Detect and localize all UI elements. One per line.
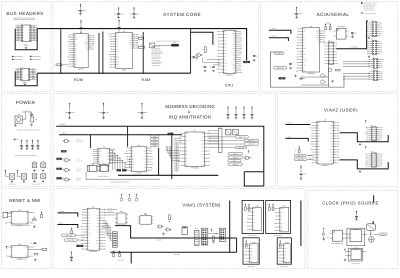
svg-text:BE: BE [185,151,187,153]
reset header J10 [3,212,11,217]
wire ACIA aux 2 [301,84,329,86]
wire bus vertical right of RAM [142,32,144,73]
frame B1 parts [245,240,247,247]
svg-text:pin the may in: pin the may in [152,55,161,57]
power flag BUS GND (J1) [12,58,24,61]
caption SPI header [118,260,125,262]
svg-text:NMI DEBOUNCE: NMI DEBOUNCE [17,259,28,261]
svg-text:CB1: CB1 [365,166,368,168]
svg-text:PB0: PB0 [233,63,236,65]
svg-text:U24A: U24A [355,229,359,231]
divider U24 74HC74 [345,228,367,249]
svg-text:A4: A4 [88,240,90,242]
svg-text:D1: D1 [379,24,381,26]
svg-text:PB0: PB0 [367,51,370,53]
svg-text:CA2: CA2 [201,165,204,167]
svg-text:RN1: RN1 [174,42,177,44]
gate U19B buffer [165,228,172,231]
svg-text:IO_CS: IO_CS [77,159,81,161]
ground barrel jack [14,124,17,127]
svg-text:BE: BE [74,48,76,50]
expansion frame A1 [242,200,263,233]
ground below J2 [24,83,27,86]
svg-text:D0: D0 [335,54,337,56]
svg-text:A11: A11 [303,37,306,39]
svg-text:A9: A9 [317,162,319,164]
svg-text:A0: A0 [132,167,134,169]
svg-text:D1: D1 [379,35,381,37]
net label pill stack B [150,138,159,141]
frame A1 caption [248,235,257,237]
svg-text:A9: A9 [224,34,226,36]
svg-text:D0: D0 [369,71,371,73]
svg-text:CB1: CB1 [367,35,370,37]
PS2 header J13 [219,228,225,241]
svg-text:PA7: PA7 [32,78,35,80]
VCC pullup pair above ACIA [325,22,331,29]
svg-text:A5: A5 [88,226,90,228]
svg-text:C4: C4 [190,57,192,59]
svg-text:OE: OE [97,226,99,228]
svg-text:CB1: CB1 [335,63,338,65]
svg-text:PB1: PB1 [116,51,119,53]
bus header J2 [15,66,36,81]
svg-text:A3: A3 [317,138,319,140]
svg-text:WE: WE [116,46,118,48]
decoupling cap C26 [251,106,254,119]
svg-text:PB0: PB0 [365,162,368,164]
svg-text:A12: A12 [317,152,320,154]
svg-text:OE: OE [116,67,118,69]
svg-text:MLB: MLB [185,133,188,135]
svg-text:CB1: CB1 [380,153,383,155]
svg-text:A3: A3 [116,41,118,43]
svg-text:UPGRADE B: UPGRADE B [280,266,288,268]
svg-text:TP2: TP2 [42,161,45,163]
svg-text:BE: BE [98,161,100,163]
svg-text:A8: A8 [12,212,14,214]
svg-text:D0: D0 [369,77,371,79]
gate IC U17 74HC14 glue [99,163,111,172]
svg-text:PA3: PA3 [324,57,327,59]
svg-text:SO: SO [185,165,187,167]
svg-text:RES: RES [380,67,383,69]
gate U10C nand [63,168,83,172]
svg-text:RS0..3: RS0..3 [287,136,291,138]
ground J4 [368,36,371,39]
svg-text:PB0: PB0 [303,48,306,50]
decoupling cap C1 [77,4,86,16]
decoupling cap C4 on bus vertical [190,56,198,59]
resistor R4 RDY pullup [202,47,206,53]
svg-text:PHI2: PHI2 [316,31,319,33]
svg-text:PA2: PA2 [88,215,91,217]
svg-text:ADDRESS DECODING: ADDRESS DECODING [165,104,215,109]
svg-text:CB1: CB1 [367,33,370,35]
svg-text:A0: A0 [317,127,319,129]
svg-text:D0: D0 [380,75,382,77]
svg-text:AUX PORT: AUX PORT [118,260,125,262]
wire bus vertical dark U9 [158,148,160,175]
svg-text:OE: OE [107,159,109,161]
caption 74HC parts [98,176,108,178]
svg-text:PA3: PA3 [367,41,370,43]
svg-text:A2: A2 [253,219,255,221]
gate U10A nand [63,139,83,143]
net label dark box AD [61,150,67,153]
svg-text:D6: D6 [303,56,305,58]
svg-text:not use ROM that: not use ROM that [152,62,163,64]
svg-text:A0..A15: A0..A15 [60,124,65,126]
svg-text:PA0: PA0 [284,251,287,253]
junction clock out [370,234,371,235]
wire thick VIA1 portB rail [110,252,236,256]
svg-text:VCC: VCC [324,54,327,56]
svg-text:RES: RES [379,31,382,33]
svg-text:PB0: PB0 [280,227,283,229]
wire thick VIA1 portA rail [115,226,237,242]
svg-text:A15: A15 [63,151,66,153]
user port header J9 [365,146,383,168]
svg-text:D1: D1 [335,43,337,45]
svg-text:Q2: Q2 [325,82,327,84]
wire bus drop to U8 [89,135,91,148]
ground SW2 [34,259,37,262]
wire power input [22,112,31,120]
speaker/buzzer LS1 [182,225,191,234]
svg-text:PB0: PB0 [380,135,383,137]
svg-text:A6: A6 [88,249,90,251]
decoupling cap C20 [65,103,75,119]
barrel jack J3 [15,113,22,123]
svg-text:RN2: RN2 [219,126,222,128]
svg-text:74HC74 (2): 74HC74 (2) [352,263,360,265]
svg-text:WE: WE [331,157,333,159]
svg-text:A1: A1 [366,129,368,131]
gate U19A buffer [157,225,164,228]
junction dots on top rail [60,28,191,29]
net label RTS/CTS pill [274,52,284,55]
decoupling cap C28 below VIA1 [70,251,73,261]
svg-text:OE: OE [88,246,90,248]
transistor Q1 level shift [321,74,327,78]
svg-text:PA1: PA1 [25,247,28,249]
svg-text:GND: GND [367,27,370,29]
PLD U7 ATF16V8 address decoder [178,129,211,169]
svg-text:D7: D7 [325,60,327,62]
svg-text:PA0: PA0 [280,230,283,232]
svg-text:WR_EN: WR_EN [77,170,82,172]
svg-text:1.8432MHz: 1.8432MHz [337,26,345,28]
svg-text:OSC. MODULE X1: OSC. MODULE X1 [331,243,343,245]
svg-text:PHI2: PHI2 [224,62,227,64]
RTC U19 DS3234 [138,213,154,224]
power flag BUS VCC (J1) [12,55,24,58]
svg-text:CA1: CA1 [116,36,119,38]
svg-text:IRQ: IRQ [280,212,282,214]
svg-text:IRQ: IRQ [330,141,332,143]
svg-text:A10: A10 [116,38,119,40]
note text block (ROM usage) [152,46,163,67]
net label pill stack D [150,144,159,147]
cap C9 ACIA area [289,63,292,69]
caption bulk caps [31,184,41,186]
svg-text:SYNC: SYNC [231,52,235,54]
svg-text:RDY: RDY [74,57,77,59]
svg-text:CS: CS [88,237,90,239]
svg-text:PA1: PA1 [303,40,306,42]
net label pill VIA1_CS [209,146,247,149]
resistor R2 ROM /WE pullup [54,64,68,67]
svg-text:BUS HEADERS: BUS HEADERS [6,11,43,16]
svg-text:D5: D5 [74,66,76,68]
svg-text:RESET & NMI: RESET & NMI [9,198,40,203]
serial header J7 [368,68,383,81]
svg-text:D4: D4 [303,62,305,64]
wire control bus to CPU left [191,32,213,44]
VCC chain clock left [323,228,329,241]
svg-text:RDY: RDY [74,50,77,52]
svg-text:and may this for ROM: and may this for ROM [363,3,377,5]
label J1 value [24,44,28,47]
svg-text:PB3: PB3 [317,33,320,35]
svg-text:D1: D1 [33,39,35,41]
caption U15 [17,259,28,261]
svg-text:OPTION SKT 2: OPTION SKT 2 [274,235,283,237]
svg-text:PA2: PA2 [224,37,227,39]
VIA#1 U6 W65C22S [81,205,108,253]
svg-text:D4: D4 [303,68,305,70]
comparator U8 74HC688 [92,145,115,164]
divider U24B 74HC74 [345,249,366,265]
svg-text:D0..D7: D0..D7 [287,122,292,124]
svg-text:A2: A2 [224,47,226,49]
frame A2 parts [268,204,274,211]
svg-text:VPB: VPB [96,243,99,245]
wire thick frame right rail [300,200,302,246]
svg-text:A1: A1 [366,160,368,162]
svg-text:A10: A10 [98,155,101,157]
svg-text:D6: D6 [185,161,187,163]
svg-text:WE: WE [202,136,204,138]
user port header J8 [365,120,383,142]
decoupling cap C2 [115,7,124,19]
serial header J5 [367,38,383,55]
svg-text:CS: CS [224,66,226,68]
wire thick portB drop [130,252,132,263]
CPU U1 W65C02S [217,27,243,76]
svg-text:PA3: PA3 [324,51,327,53]
svg-text:A3: A3 [88,234,90,236]
svg-text:VPB: VPB [201,133,204,135]
svg-text:A11: A11 [88,243,91,245]
net label TX dark box [279,77,286,80]
svg-text:IRQ: IRQ [98,149,100,151]
decoupling cap C30 VIA2 [300,165,307,179]
svg-text:GND: GND [250,258,253,260]
svg-text:D5: D5 [303,45,305,47]
section border RESET & NMI [1,189,51,269]
svg-text:VIA#2 (USER): VIA#2 (USER) [324,107,358,112]
svg-text:OE: OE [233,61,235,63]
decoupling cap C22 [137,103,147,119]
svg-text:A6: A6 [253,215,255,217]
wire main data/address bus top rail [37,29,246,61]
svg-text:TP1: TP1 [33,161,36,163]
svg-text:and of RAM this: and of RAM this [152,50,162,52]
svg-text:PA0: PA0 [130,40,133,42]
svg-text:PA3: PA3 [379,22,382,24]
svg-text:A3: A3 [74,52,76,54]
frame B2 parts [279,240,281,247]
wires VIA1 status [104,208,117,215]
gate U11B irq combine [244,150,252,159]
svg-text:D5: D5 [116,44,118,46]
svg-text:use use use that pin: use use use that pin [363,9,375,11]
cap C10 osc [351,32,357,38]
svg-text:CA2: CA2 [317,130,320,132]
svg-text:VCC: VCC [317,133,320,135]
VCC pullup R9 VIA1 [71,227,73,233]
wire bundle PLD inputs left [175,138,182,171]
svg-text:MLB: MLB [96,209,99,211]
svg-text:PB0: PB0 [365,133,368,135]
svg-text:PHI2: PHI2 [78,245,81,247]
svg-text:PA1: PA1 [132,159,135,161]
svg-text:R6: R6 [295,150,297,152]
svg-text:PA7: PA7 [380,71,383,73]
gate IC U16 74HC00 glue [87,163,99,172]
cap C6 CPU [210,66,215,72]
svg-text:OE: OE [74,61,76,63]
net label dark box G2 [56,168,63,171]
svg-text:D1: D1 [185,136,187,138]
svg-text:A2: A2 [132,150,134,152]
svg-text:RD_EN: RD_EN [77,178,81,180]
svg-text:KB_DAT: KB_DAT [108,211,113,213]
svg-text:C10: C10 [355,33,358,35]
electrolytic cap C16 [32,161,37,171]
register U9 74HC273 [124,144,154,174]
svg-text:D5: D5 [303,42,305,44]
net label pill IRQ_B [228,156,243,159]
svg-text:TAB_MOUNT: TAB_MOUNT [8,184,16,186]
power flag VCC [14,139,19,142]
svg-text:A9: A9 [317,125,319,127]
junction dots U9 left [129,159,130,168]
svg-text:IRQ: IRQ [17,78,19,80]
svg-text:A1: A1 [335,60,337,62]
wire thick frames vertical [229,201,231,253]
svg-text:PA7: PA7 [324,48,327,50]
svg-text:that may and pin in: that may and pin in [363,8,375,10]
net label dark box PHI2 VIA1 [76,245,83,248]
svg-text:A10: A10 [107,149,110,151]
wire address bus rail A [56,124,264,186]
svg-text:PB1: PB1 [107,163,110,165]
svg-text:ROM: ROM [74,78,83,82]
ground LCD [212,241,215,244]
svg-text:RDY: RDY [106,156,109,158]
svg-text:GND: GND [367,47,370,49]
svg-text:WE: WE [74,54,76,56]
VCC stub RAM power pin [118,20,121,33]
svg-text:WE: WE [74,43,76,45]
svg-text:C27: C27 [30,243,33,245]
svg-text:VCC: VCC [12,247,15,249]
svg-text:PHI2: PHI2 [85,41,88,43]
cap C27 NMI [30,243,36,245]
svg-text:GND: GND [132,164,135,166]
frame A1 IC U20 [247,205,261,231]
svg-text:D5: D5 [185,154,187,156]
wire loop around J1 [15,29,37,50]
bypass cap C14 [31,140,34,150]
svg-text:WE: WE [233,59,235,61]
svg-text:A2: A2 [250,261,252,263]
svg-text:PB0: PB0 [324,45,327,47]
svg-text:PB2: PB2 [224,44,227,46]
wire loop user port J9 [340,160,389,169]
resistor network RN1 [171,42,179,47]
section border CLOCK SOURCE [307,190,397,268]
wire data bus stub to VIA1 [57,211,77,217]
svg-text:CA2: CA2 [96,217,99,219]
svg-text:ROM bus RAM to: ROM bus RAM to [152,53,163,55]
net label pill RES_B [228,163,243,166]
svg-text:MLB: MLB [317,146,320,148]
electrolytic cap C18 [32,174,37,183]
svg-text:SP: SP [190,225,192,227]
svg-text:RES: RES [367,43,370,45]
svg-text:CA2: CA2 [74,59,77,61]
svg-text:D7: D7 [366,137,368,139]
caption optional wait states [110,182,130,184]
ground SW1 [33,225,36,228]
svg-text:ACIA/SERIAL: ACIA/SERIAL [317,12,350,17]
svg-text:D3: D3 [327,237,329,239]
reset button SW1 [32,217,37,221]
wires VIA1 to J11 [103,221,113,241]
jumper JP1 ROM size select [138,36,143,40]
svg-text:PB2: PB2 [330,125,333,127]
resistor network RN2 [218,126,222,152]
svg-text:A0: A0 [366,155,368,157]
section border ADDRESS DECODING [53,93,275,186]
svg-text:A1: A1 [380,63,382,65]
svg-text:WE: WE [233,31,235,33]
supervisor U15 DS1813 NMI [5,243,34,260]
ground power input [30,124,33,127]
svg-text:RAM_CSL: RAM_CSL [77,160,83,162]
label J2 value [23,81,27,84]
svg-text:D2: D2 [224,31,226,33]
wire address bus rail B [59,133,182,135]
expansion frame A2 [266,200,291,233]
svg-text:IRQ: IRQ [250,248,252,250]
electrolytic cap C19 [41,174,46,183]
svg-text:RAM: RAM [142,78,151,82]
decoupling cap C7 (ACIA) [293,7,302,19]
wire bus bottom rail from J2 [37,72,190,74]
svg-text:D6: D6 [132,153,134,155]
expansion frame B2 [277,238,291,264]
net label pill VIA1 CS [62,234,85,237]
resistor R3 [138,44,144,48]
svg-text:D0: D0 [253,229,255,231]
svg-text:PA2: PA2 [74,63,77,65]
section border POWER [1,93,51,186]
